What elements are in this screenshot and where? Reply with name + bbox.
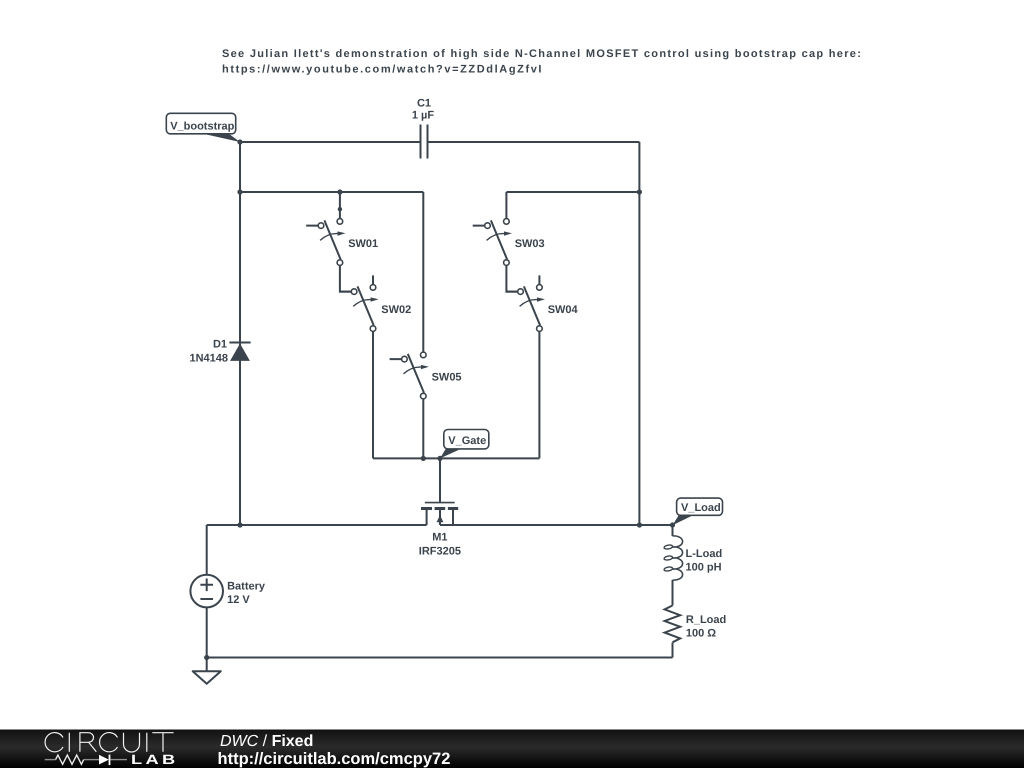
svg-text:IRF3205: IRF3205: [419, 545, 461, 557]
wire battery top: [206, 525, 208, 575]
battery: [190, 575, 265, 608]
header note: [222, 48, 862, 76]
junction SW01 top: [337, 189, 342, 194]
switch SW04: [506, 285, 579, 332]
svg-text:12 V: 12 V: [227, 594, 250, 606]
svg-text:SW04: SW04: [548, 304, 579, 316]
logo CIRCUIT: [45, 733, 174, 752]
wire bottom bus: [207, 657, 673, 659]
wire SW04 free stub: [538, 275, 540, 285]
junction right bus: [637, 522, 642, 527]
switch SW05: [390, 352, 462, 399]
svg-text:1 µF: 1 µF: [412, 109, 435, 121]
wire SW05 drop lower: [422, 399, 424, 458]
svg-text:100 pH: 100 pH: [686, 562, 722, 574]
svg-text:SW05: SW05: [432, 371, 462, 383]
svg-text:V_Gate: V_Gate: [448, 435, 486, 447]
ground: [193, 671, 221, 684]
wire gate bus: [373, 457, 539, 459]
wire mid left: [240, 191, 423, 193]
wire bus right: [440, 524, 673, 526]
switch SW01: [306, 219, 378, 266]
svg-text:LAB: LAB: [131, 752, 179, 767]
wire SW02 free stub: [372, 275, 374, 285]
wire SW03 stub: [505, 192, 507, 219]
wire SW01 to SW02: [340, 266, 352, 292]
junction battery ground: [204, 655, 209, 660]
junction V_bootstrap node: [237, 139, 242, 144]
switch SW03: [473, 219, 545, 266]
svg-text:V_Load: V_Load: [681, 502, 721, 514]
svg-text:1N4148: 1N4148: [189, 352, 228, 364]
junction V_Load node: [670, 522, 675, 527]
junction left bus: [237, 522, 242, 527]
wire SW03 to SW04: [506, 266, 518, 292]
wire bus left: [207, 524, 427, 526]
svg-text:https://www.youtube.com/watch?: https://www.youtube.com/watch?v=ZZDdlAgZ…: [222, 64, 543, 76]
wire gate: [439, 458, 441, 502]
svg-text:SW01: SW01: [348, 238, 378, 250]
node V_Gate: [440, 430, 489, 459]
junction SW05 bus: [421, 456, 426, 461]
junction left mid: [237, 189, 242, 194]
svg-text:See Julian Ilett's demonstrati: See Julian Ilett's demonstration of high…: [222, 48, 862, 60]
svg-text:L-Load: L-Load: [686, 548, 723, 560]
footer bar: [0, 730, 1024, 768]
svg-text:100 Ω: 100 Ω: [686, 628, 716, 640]
svg-text:V_bootstrap: V_bootstrap: [170, 121, 234, 133]
wire SW01 stub: [339, 192, 341, 219]
resistor R_Load: [665, 606, 727, 643]
svg-text:M1: M1: [432, 532, 447, 544]
node V_bootstrap: [166, 113, 240, 142]
logo resistor-diode glyph: [45, 752, 179, 767]
wire SW04 drop: [538, 332, 540, 459]
svg-text:DWC / Fixed: DWC / Fixed: [220, 733, 313, 750]
wire mid right: [506, 191, 639, 193]
svg-text:C1: C1: [417, 98, 431, 110]
wire load middle: [672, 580, 674, 606]
wire top left: [240, 141, 420, 143]
svg-text:Battery: Battery: [227, 581, 266, 593]
wire SW02 drop: [372, 332, 374, 459]
junction SW01 stub: [338, 207, 342, 211]
inductor L-Load: [664, 536, 722, 580]
wire left vertical: [239, 142, 241, 525]
svg-text:SW03: SW03: [515, 238, 545, 250]
diode D1: [189, 339, 250, 365]
mosfet M1: [419, 503, 461, 558]
footer credit: [218, 733, 451, 768]
svg-text:http://circuitlab.com/cmcpy72: http://circuitlab.com/cmcpy72: [218, 750, 451, 768]
junction right mid: [637, 189, 642, 194]
wire ground stub: [206, 658, 208, 672]
switch SW02: [339, 285, 411, 332]
wire load top: [672, 525, 674, 536]
wire load bottom: [672, 643, 674, 658]
junction V_Gate node: [437, 456, 442, 461]
wire SW05 drop: [422, 192, 424, 353]
svg-text:SW02: SW02: [381, 304, 411, 316]
capacitor C1: [412, 98, 435, 159]
wire battery bottom: [206, 607, 208, 657]
wire right vertical: [638, 142, 640, 525]
svg-text:R_Load: R_Load: [686, 614, 726, 626]
wire top right: [429, 141, 640, 143]
svg-text:D1: D1: [213, 339, 227, 351]
node V_Load: [673, 498, 723, 525]
